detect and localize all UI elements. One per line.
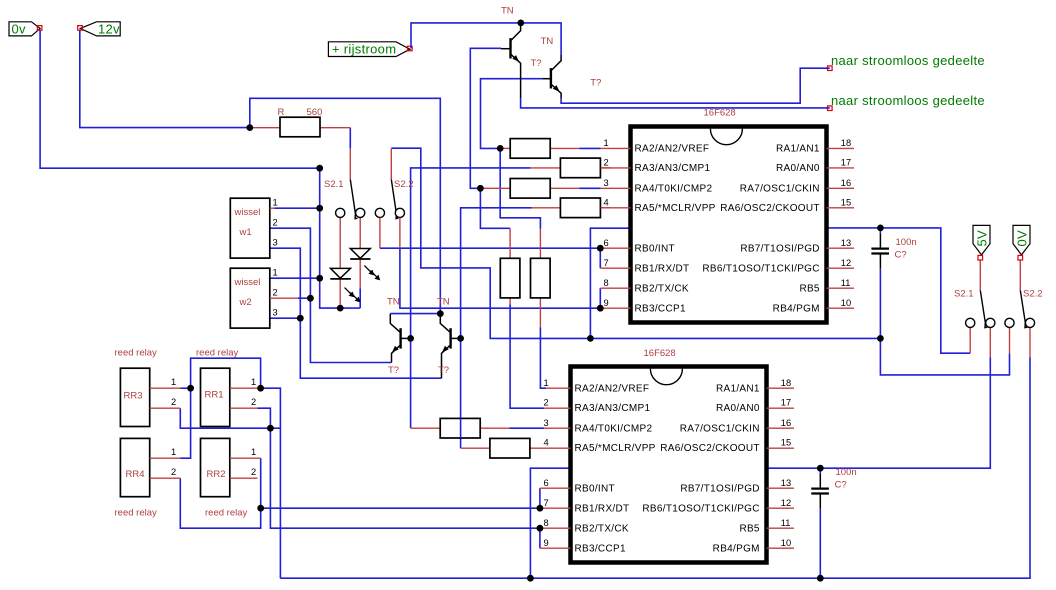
wire cap1 bottom lead (879, 269, 881, 339)
junction cap1 bottom (877, 335, 884, 342)
wire RR1 node down to ground rail (261, 388, 281, 578)
IC U1 left pin numbers (604, 138, 609, 308)
svg-text:RB1/RX/DT: RB1/RX/DT (635, 263, 690, 274)
svg-text:2: 2 (171, 467, 176, 477)
junction IC2 pin7 (537, 505, 544, 512)
svg-text:C?: C? (835, 480, 847, 491)
wire right contact 3 red stub (1009, 328, 1011, 354)
wire vertical resistor 2 bottom to IC2 pin1 (540, 328, 546, 389)
svg-text:RA2/AN2/VREF: RA2/AN2/VREF (635, 144, 710, 155)
svg-text:RA4/T0KI/CMP2: RA4/T0KI/CMP2 (635, 184, 713, 195)
svg-text:RB5: RB5 (799, 283, 819, 294)
junction IC2 pin8 (537, 525, 544, 532)
junction T4 base (457, 335, 464, 342)
svg-text:RB4/PGM: RB4/PGM (773, 303, 820, 314)
svg-text:RB0/INT: RB0/INT (575, 483, 615, 494)
wire IC1 pin14 right side to cap1 and right switch contact 1 (827, 228, 971, 353)
svg-text:RA1/AN1: RA1/AN1 (776, 144, 820, 155)
svg-text:2: 2 (273, 288, 278, 298)
svg-text:reed relay: reed relay (115, 348, 157, 359)
svg-text:11: 11 (841, 278, 851, 288)
svg-text:2: 2 (544, 398, 549, 408)
svg-text:13: 13 (781, 478, 791, 488)
svg-text:RB3/CCP1: RB3/CCP1 (575, 543, 626, 554)
svg-text:0V: 0V (1014, 230, 1029, 247)
svg-text:reed relay: reed relay (196, 348, 238, 359)
IC U2 left pin labels (575, 384, 656, 555)
junction IC1 pin6 (597, 245, 604, 252)
IC U1 right pin numbers (841, 138, 851, 308)
svg-text:12: 12 (781, 498, 791, 508)
svg-text:reed relay: reed relay (115, 508, 157, 519)
IC U1 right pin labels (702, 144, 820, 315)
wissel w1 (230, 198, 277, 259)
wire cap2 bottom lead (819, 509, 821, 579)
svg-text:RA0/AN0: RA0/AN0 (776, 163, 820, 174)
reed relay RR4 (115, 438, 181, 518)
svg-text:reed relay: reed relay (205, 508, 247, 519)
svg-text:RB5: RB5 (739, 523, 759, 534)
svg-text:17: 17 (841, 158, 851, 168)
svg-text:RR3: RR3 (124, 391, 143, 402)
resistor R4 on IC1 pin4 (532, 198, 612, 218)
svg-text:1: 1 (251, 447, 256, 457)
svg-text:RB3/CCP1: RB3/CCP1 (635, 303, 686, 314)
junction w2 pin2 (307, 295, 314, 302)
switch S2.2 middle (391, 148, 413, 218)
wire w2 pin1 to 0v net (270, 277, 320, 279)
svg-text:100n: 100n (896, 237, 917, 248)
svg-text:8: 8 (604, 278, 609, 288)
transistor T1 TN (npn upper left) (501, 6, 542, 98)
svg-text:TN: TN (541, 36, 554, 47)
svg-text:RB0/INT: RB0/INT (635, 243, 675, 254)
net label naar stroomloos gedeelte (upper) (828, 53, 985, 70)
resistor R6 on IC2 pin4 (461, 438, 546, 458)
junction w2 pin3 (297, 315, 304, 322)
junction T4 collector (437, 310, 444, 317)
svg-text:7: 7 (544, 498, 549, 508)
junction LED1 bottom (337, 305, 344, 312)
junction rail cap2 (817, 575, 824, 582)
wire right contact 4 red stub (1029, 328, 1031, 358)
resistor R3 on IC1 pin3 (480, 179, 600, 199)
svg-text:wissel: wissel (234, 207, 261, 218)
wire w1 pin2 to w2 pin2 and T3 emitter (270, 228, 392, 362)
middle contact 3 red stub (379, 218, 381, 249)
wire T1 base (470, 48, 501, 188)
svg-text:TN: TN (387, 297, 400, 308)
switch S2.1 right (954, 260, 987, 328)
vertical resistor on IC1 pin3 net (500, 228, 520, 304)
wire T3 T4 collectors link (390, 313, 440, 315)
svg-text:S2.2: S2.2 (394, 179, 414, 190)
IC U2 16F628 (571, 348, 767, 563)
wire R3 node down to vertical resistor 1 (480, 188, 510, 228)
svg-text:RA7/OSC1/CKIN: RA7/OSC1/CKIN (740, 184, 820, 195)
junction cap1 top (877, 225, 884, 232)
IC U2 right pin stubs (767, 388, 795, 548)
middle contact 4 red stub (399, 218, 401, 249)
LED 2 (350, 218, 380, 289)
svg-text:RR2: RR2 (207, 469, 226, 480)
svg-text:3: 3 (273, 308, 278, 318)
transistor T3 TN (npn mirrored lower left) (387, 297, 411, 377)
svg-text:2: 2 (251, 397, 256, 407)
svg-text:15: 15 (841, 198, 851, 208)
wire T2 base (481, 79, 543, 149)
wire cap1 top lead (879, 228, 881, 234)
pin square of 0V flag (1018, 255, 1023, 260)
svg-text:T?: T? (531, 58, 542, 69)
svg-text:RB1/RX/DT: RB1/RX/DT (575, 503, 630, 514)
IC U1 left pin stubs (600, 148, 630, 308)
svg-text:10: 10 (841, 298, 851, 308)
junction R3 node (477, 185, 484, 192)
switch S2.1 middle (324, 148, 357, 218)
IC U1 left pin labels (635, 144, 716, 315)
svg-text:10: 10 (781, 538, 791, 548)
svg-text:1: 1 (171, 377, 176, 387)
svg-text:RB2/TX/CK: RB2/TX/CK (635, 283, 689, 294)
svg-text:6: 6 (544, 478, 549, 488)
wire right contact 2 red stub (989, 328, 991, 358)
wire S2.2 pivot to IC1 pin14 net (391, 148, 880, 338)
supply flag 5V rotated (973, 225, 990, 255)
wire IC2 pin6 to pin7 link (539, 488, 541, 508)
wire w1 pin3 to w2 pin3 and T4 emitter (270, 248, 442, 378)
wire RR3 pin2 row (180, 408, 280, 428)
svg-text:6: 6 (604, 238, 609, 248)
IC U2 left pin stubs (540, 388, 571, 548)
svg-text:7: 7 (604, 258, 609, 268)
svg-text:T?: T? (590, 77, 601, 88)
resistor R 560 (250, 107, 350, 137)
wire w2 pin2 blue part (298, 297, 310, 299)
junction T3 base (407, 335, 414, 342)
svg-text:0v: 0v (12, 22, 27, 37)
wire net 12v trunk (80, 30, 250, 128)
svg-text:15: 15 (781, 438, 791, 448)
svg-text:RB6/T1OSO/T1CKI/PGC: RB6/T1OSO/T1CKI/PGC (702, 263, 819, 274)
wire rijstroom to T1 and T2 collectors (411, 23, 561, 55)
wire T1 emitter to lower naar label (521, 98, 830, 108)
svg-text:4: 4 (604, 198, 609, 208)
svg-text:2: 2 (171, 397, 176, 407)
svg-text:1: 1 (251, 377, 256, 387)
junction IC1 pin9 (597, 305, 604, 312)
junction cap2 top (817, 465, 824, 472)
resistor R2 on IC1 pin2 (530, 158, 611, 178)
svg-text:T?: T? (388, 365, 399, 376)
junction RR3 pin1 (187, 385, 194, 392)
svg-text:RA6/OSC2/CKOOUT: RA6/OSC2/CKOOUT (720, 203, 820, 214)
svg-text:RB7/T1OSI/PGD: RB7/T1OSI/PGD (680, 483, 759, 494)
pin square of 5V flag (978, 255, 983, 260)
svg-text:R: R (278, 107, 285, 118)
svg-text:18: 18 (781, 378, 791, 388)
svg-text:11: 11 (781, 518, 791, 528)
transistor T2 TN (npn upper right) (541, 36, 602, 98)
svg-text:1: 1 (544, 378, 549, 388)
wire LED2 bottom blue part (359, 288, 361, 308)
svg-text:2: 2 (251, 467, 256, 477)
svg-text:wissel: wissel (234, 277, 261, 288)
vertical resistor on IC1 pin1 net (531, 229, 551, 328)
svg-text:RA4/T0KI/CMP2: RA4/T0KI/CMP2 (575, 424, 653, 435)
wire IC1 pin4 row to R4 (461, 208, 532, 448)
wire reed relay coils top link (180, 358, 260, 458)
junction RR1 pin1 (257, 385, 264, 392)
svg-text:17: 17 (781, 398, 791, 408)
supply flag 0v (9, 22, 40, 37)
wire R1 node down to vertical resistor 2 (500, 148, 540, 228)
wire w2 pin3 (270, 317, 301, 319)
IC U1 right pin stubs (827, 148, 855, 308)
svg-text:RA3/AN3/CMP1: RA3/AN3/CMP1 (635, 163, 711, 174)
svg-text:RA1/AN1: RA1/AN1 (716, 384, 760, 395)
svg-text:RA5/*MCLR/VPP: RA5/*MCLR/VPP (575, 443, 656, 454)
wire w1 pin1 to 0v net (275, 207, 320, 209)
wire RR2 pin1 to IC2 pin7 (261, 458, 540, 508)
wire T2 emitter to upper naar label (561, 68, 830, 103)
svg-text:RA2/AN2/VREF: RA2/AN2/VREF (575, 384, 650, 395)
svg-text:T?: T? (438, 365, 449, 376)
svg-text:1: 1 (273, 198, 278, 208)
junction w1 pin1 (316, 205, 323, 212)
switch S2.2 right (1020, 260, 1042, 328)
wire middle contact 3 to IC1 pin6 (380, 247, 600, 249)
svg-text:+ rijstroom: + rijstroom (332, 41, 396, 56)
pin square of rijstroom flag (408, 46, 413, 51)
wissel w2 (230, 268, 298, 329)
svg-text:S2.2: S2.2 (1023, 289, 1043, 300)
wire IC1 pin2 row to R2 (411, 168, 531, 428)
svg-text:1: 1 (171, 447, 176, 457)
wire IC2 pin8 to pin9 link (539, 528, 541, 548)
svg-text:S2.1: S2.1 (954, 289, 974, 300)
svg-text:2: 2 (604, 158, 609, 168)
capacitor C? 100n lower (811, 467, 856, 509)
resistor R5 on IC2 pin3 (411, 418, 510, 438)
wire cap2 top lead (819, 468, 821, 474)
svg-text:RB6/T1OSO/T1CKI/PGC: RB6/T1OSO/T1CKI/PGC (642, 503, 759, 514)
junction R1 node (497, 145, 504, 152)
svg-text:RA0/AN0: RA0/AN0 (716, 403, 760, 414)
transistor T4 TN (npn mirrored lower right) (437, 297, 461, 379)
junction RR coil row (267, 425, 274, 432)
svg-text:naar stroomloos gedeelte: naar stroomloos gedeelte (831, 53, 985, 68)
IC U2 left pin numbers (544, 378, 549, 548)
svg-text:1: 1 (273, 268, 278, 278)
IC U1 16F628 (631, 108, 827, 323)
capacitor C? 100n upper (871, 234, 916, 269)
wire RR1 pin2 to IC2 pin8 (258, 408, 540, 528)
wire IC2 pin14 left to rail (530, 468, 570, 578)
junction T1 collector (517, 20, 524, 27)
junction w2 pin1 (316, 275, 323, 282)
reed relay RR1 (196, 348, 258, 427)
svg-text:5V: 5V (974, 230, 989, 247)
wire RR3 pin1 to node (180, 387, 190, 389)
svg-text:w2: w2 (239, 297, 252, 308)
svg-text:1: 1 (604, 138, 609, 148)
svg-text:12v: 12v (98, 22, 120, 37)
svg-text:RB2/TX/CK: RB2/TX/CK (575, 523, 629, 534)
wire RR4 pin2 to RR2 node (180, 478, 260, 528)
svg-text:3: 3 (544, 418, 549, 428)
svg-text:9: 9 (544, 538, 549, 548)
svg-text:3: 3 (273, 238, 278, 248)
svg-text:8: 8 (544, 518, 549, 528)
svg-text:16F628: 16F628 (644, 348, 676, 359)
supply flag 0V rotated (1013, 225, 1030, 255)
svg-text:560: 560 (307, 107, 323, 118)
svg-text:TN: TN (501, 6, 514, 17)
svg-text:4: 4 (544, 438, 549, 448)
svg-text:100n: 100n (836, 467, 857, 478)
svg-text:12: 12 (841, 258, 851, 268)
svg-text:RR1: RR1 (205, 390, 224, 401)
wire right contact 1 red stub (969, 328, 971, 354)
svg-text:w1: w1 (239, 227, 252, 238)
net label naar stroomloos gedeelte (lower) (828, 93, 985, 110)
right contact circles (966, 318, 1035, 327)
wire IC1 pin14 left side (590, 228, 630, 338)
pin square of 12v flag (78, 26, 83, 31)
wire net 0v trunk (40, 30, 360, 308)
svg-text:RA3/AN3/CMP1: RA3/AN3/CMP1 (575, 403, 651, 414)
middle contact circles (336, 208, 405, 217)
svg-text:16: 16 (781, 418, 791, 428)
svg-text:13: 13 (841, 238, 851, 248)
junction RR2 pin1 (257, 505, 264, 512)
svg-text:C?: C? (895, 250, 907, 261)
svg-text:RB4/PGM: RB4/PGM (713, 543, 760, 554)
svg-text:16F628: 16F628 (704, 108, 736, 119)
svg-text:RA6/OSC2/CKOOUT: RA6/OSC2/CKOOUT (660, 443, 760, 454)
svg-text:3: 3 (604, 178, 609, 188)
junction 0v corner (316, 165, 323, 172)
svg-text:RR4: RR4 (126, 469, 145, 480)
junction pin14 net at base row (587, 335, 594, 342)
resistor R1 on IC1 pin1 (500, 139, 600, 159)
svg-text:TN: TN (437, 297, 450, 308)
wire right contact 2 to IC2 pin14 right (767, 358, 991, 469)
svg-text:naar stroomloos gedeelte: naar stroomloos gedeelte (831, 93, 985, 108)
svg-text:RB7/T1OSI/PGD: RB7/T1OSI/PGD (740, 243, 819, 254)
wire middle contact 4 to IC1 pin9 (400, 248, 600, 308)
IC U2 right pin labels (642, 384, 760, 555)
IC U2 right pin numbers (781, 378, 791, 548)
wire R560 output to S2.1 pivot (349, 128, 351, 149)
wire cap1 bottom to right switch contact 3 (880, 338, 1009, 375)
reed relay RR2 (201, 438, 261, 518)
wire RR1 pin1 to node (258, 387, 261, 389)
svg-text:2: 2 (273, 218, 278, 228)
LED 1 (330, 218, 360, 306)
wire IC1 pin6 to pin7 link (599, 248, 601, 268)
supply flag 12v (80, 22, 120, 37)
wire bottom ground rail (280, 358, 1030, 579)
wire 12v up over R560 to T4 collector (250, 98, 440, 313)
wire over R5 box (460, 418, 462, 438)
flag + rijstroom (328, 41, 410, 56)
svg-text:16: 16 (841, 178, 851, 188)
svg-text:18: 18 (841, 138, 851, 148)
junction 12v R560 (246, 124, 253, 131)
pin square of 0v flag (37, 26, 42, 31)
junction rail IC2 pin14 (527, 575, 534, 582)
reed relay RR3 (115, 348, 181, 427)
svg-text:RA7/OSC1/CKIN: RA7/OSC1/CKIN (680, 424, 760, 435)
wire vertical resistor 1 bottom to IC2 pin2 (510, 305, 544, 409)
wire IC1 pin8 to pin9 link (599, 288, 601, 308)
wire R5 to IC2 pin3 (510, 427, 545, 429)
svg-text:9: 9 (604, 298, 609, 308)
svg-text:S2.1: S2.1 (324, 179, 344, 190)
svg-text:RA5/*MCLR/VPP: RA5/*MCLR/VPP (635, 203, 716, 214)
